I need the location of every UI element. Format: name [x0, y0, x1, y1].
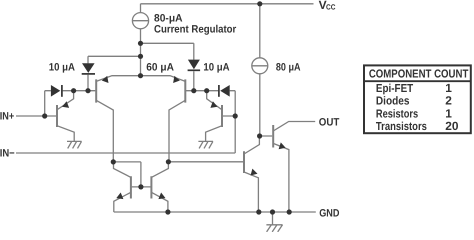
- svg-text:Diodes: Diodes: [376, 95, 410, 108]
- svg-text:Transistors: Transistors: [376, 120, 427, 133]
- svg-text:80 μA: 80 μA: [276, 61, 301, 73]
- svg-text:COMPONENT COUNT: COMPONENT COUNT: [369, 67, 469, 80]
- svg-text:GND: GND: [319, 208, 339, 220]
- svg-text:OUT: OUT: [319, 117, 340, 129]
- svg-text:20: 20: [445, 119, 459, 133]
- svg-text:2: 2: [445, 94, 452, 108]
- svg-text:10 μA: 10 μA: [203, 61, 229, 73]
- svg-text:IN−: IN−: [0, 147, 15, 159]
- svg-text:10 μA: 10 μA: [49, 61, 75, 73]
- svg-text:Epi-FET: Epi-FET: [376, 82, 413, 95]
- svg-text:Resistors: Resistors: [376, 108, 418, 121]
- svg-text:CC: CC: [326, 3, 336, 12]
- svg-text:IN+: IN+: [0, 110, 14, 122]
- svg-text:60 μA: 60 μA: [146, 61, 174, 73]
- svg-text:Current Regulator: Current Regulator: [154, 23, 236, 35]
